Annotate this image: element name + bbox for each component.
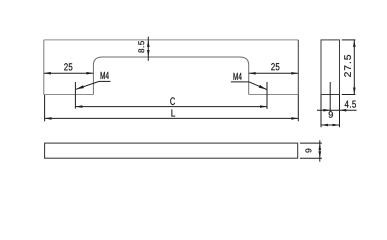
front view left foot bottom <box>44 94 94 96</box>
side view outline <box>321 40 340 95</box>
extension line left end <box>44 95 46 121</box>
dimension 27.5 <box>353 40 355 95</box>
dimension 9 bottom view extension bottom <box>300 157 322 159</box>
dimension 4.5 dim line with outside arrows <box>317 109 357 111</box>
extension line right end <box>297 95 299 122</box>
dimension L <box>45 117 299 119</box>
dimension 25 left <box>44 72 94 74</box>
bottom view outline <box>45 143 298 158</box>
dimension 9 side view dim line <box>321 124 340 126</box>
hole centerline left <box>74 82 76 109</box>
dimension 4.5 label <box>345 101 356 108</box>
dimension 9 bottom view label <box>305 149 311 153</box>
label M4 left with underline and leader <box>101 72 109 79</box>
side view hole centerline <box>329 82 331 112</box>
front view left end edge <box>43 40 45 95</box>
dimension 9 bottom view extension top <box>300 142 322 144</box>
dimension 27.5 extension bottom <box>342 94 356 96</box>
dimension 9 side view label <box>329 111 333 118</box>
dimension 9 side view extension right <box>339 95 341 128</box>
front view inner grip profile with fillets <box>93 57 248 95</box>
dimension 27.5 extension top <box>342 39 356 41</box>
hole centerline right <box>266 82 268 109</box>
front view right end edge <box>297 40 299 95</box>
dimension 9 side view extension left <box>320 95 322 128</box>
dimension 25 right <box>249 72 299 74</box>
label M4 right with underline and leader <box>234 73 242 80</box>
dimension 8.5 <box>147 37 149 61</box>
front view right foot bottom <box>249 94 299 96</box>
dimension 9 bottom view dim line <box>319 140 321 161</box>
front view top edge <box>44 39 298 41</box>
dimension C <box>75 106 267 108</box>
